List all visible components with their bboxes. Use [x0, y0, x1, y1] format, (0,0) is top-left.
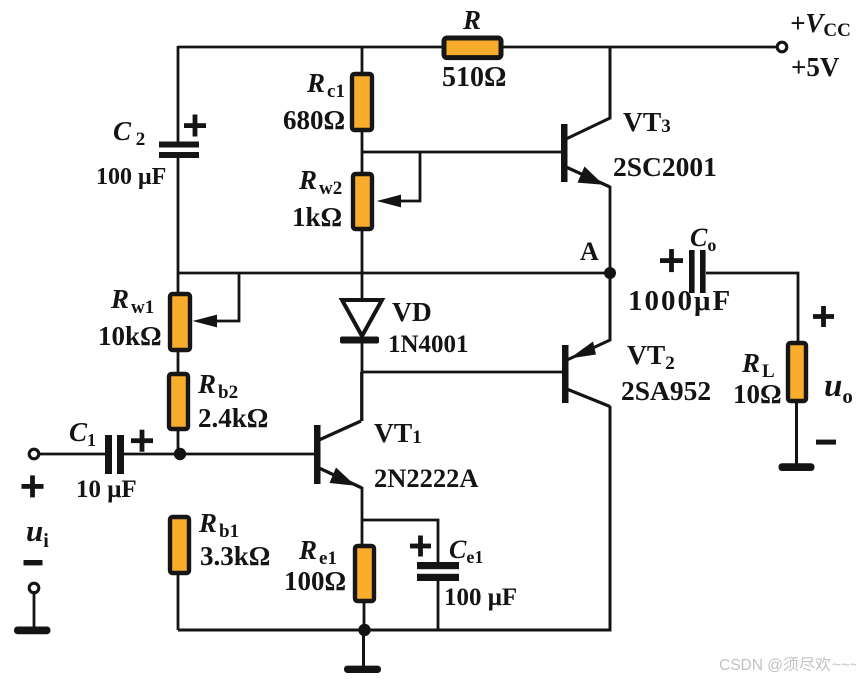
- capacitor C2: [96, 115, 206, 191]
- svg-text:10kΩ: 10kΩ: [98, 321, 162, 351]
- transistor VT3: [561, 47, 717, 187]
- wire to VT2 base: [362, 371, 562, 374]
- wire RL to ground: [795, 401, 798, 464]
- svg-text:2SC2001: 2SC2001: [613, 151, 717, 182]
- wire left rail mid: [177, 157, 180, 293]
- wire Co to RL: [706, 273, 798, 343]
- svg-text:uo: uo: [824, 368, 853, 408]
- wire Re1 to bottom rail: [363, 601, 366, 630]
- potentiometer Rw1: [98, 273, 239, 351]
- wire diode to VT1 collector: [361, 343, 364, 421]
- node A: [580, 237, 616, 279]
- capacitor C1: [69, 417, 153, 503]
- svg-text:ui: ui: [26, 513, 49, 552]
- transistor VT1: [314, 417, 479, 493]
- wire emitter to Ce1: [362, 520, 438, 563]
- svg-text:1N4001: 1N4001: [388, 331, 469, 358]
- ground input: [14, 591, 51, 634]
- svg-text:2N2222A: 2N2222A: [374, 463, 479, 493]
- svg-text:Co: Co: [690, 223, 716, 255]
- svg-text:C1: C1: [69, 417, 96, 450]
- svg-text:VT3: VT3: [623, 106, 671, 137]
- wire Rc1 to Rw2: [361, 130, 364, 174]
- resistor Re1: [284, 535, 374, 601]
- wire VT2 collector to bottom rail: [608, 406, 610, 630]
- output port uo: [813, 306, 853, 445]
- svg-text:+VCC: +VCC: [790, 8, 851, 41]
- svg-text:CSDN @: CSDN @: [719, 657, 783, 674]
- wire Rc1/Rw2 node to VT3 base: [362, 151, 562, 154]
- wire Rb2 to node C: [177, 429, 180, 454]
- diode VD: [340, 296, 469, 358]
- svg-text:Rb1: Rb1: [198, 508, 239, 542]
- capacitor Co: [628, 223, 732, 317]
- svg-text:A: A: [580, 237, 599, 266]
- svg-text:~~~: ~~~: [832, 657, 856, 674]
- wire VT1 emitter to Re1: [361, 487, 364, 546]
- wire left rail upper: [177, 46, 180, 142]
- resistor R: [442, 5, 506, 93]
- svg-text:3.3kΩ: 3.3kΩ: [200, 541, 270, 571]
- capacitor Ce1: [410, 535, 517, 611]
- svg-text:VT1: VT1: [374, 417, 422, 448]
- svg-text:VT2: VT2: [627, 339, 675, 374]
- wire Rw2 to diode: [361, 229, 364, 301]
- ground main: [344, 630, 381, 673]
- transistor VT2: [562, 273, 711, 407]
- input port ui: [22, 475, 50, 592]
- svg-text:Rb2: Rb2: [197, 369, 238, 403]
- svg-text:510Ω: 510Ω: [442, 62, 506, 93]
- svg-text:Rw2: Rw2: [298, 165, 342, 199]
- terminal input: [29, 449, 39, 459]
- svg-text:100 μF: 100 μF: [96, 164, 166, 190]
- wire input to C1: [38, 453, 106, 456]
- svg-text:100Ω: 100Ω: [284, 566, 346, 596]
- resistor Rb1: [170, 508, 270, 573]
- svg-text:Re1: Re1: [298, 535, 337, 569]
- wire mid rail: [178, 272, 610, 275]
- svg-text:C 2: C 2: [113, 116, 145, 150]
- potentiometer Rw2: [292, 152, 420, 232]
- terminal +Vcc: [777, 8, 851, 82]
- svg-text:10 μF: 10 μF: [76, 476, 137, 503]
- svg-text:10Ω: 10Ω: [733, 379, 782, 409]
- resistor Rc1: [283, 46, 372, 135]
- svg-text:+5V: +5V: [791, 52, 840, 82]
- wire Rw1 to Rb2: [177, 350, 180, 374]
- wire top rail: [178, 46, 781, 49]
- wire C1 to VT1 base: [123, 453, 314, 456]
- wire Ce1 to bottom rail: [437, 580, 440, 630]
- wire bottom rail: [178, 629, 611, 632]
- resistor Rb2: [169, 369, 268, 433]
- wire VT1 collector up: [360, 372, 363, 421]
- svg-text:1000μF: 1000μF: [628, 285, 732, 317]
- svg-text:2.4kΩ: 2.4kΩ: [198, 403, 268, 433]
- svg-text:100 μF: 100 μF: [444, 584, 517, 611]
- svg-text:R: R: [462, 5, 481, 35]
- svg-text:VD: VD: [392, 296, 432, 327]
- svg-text:Ce1: Ce1: [449, 535, 483, 567]
- ground output: [779, 463, 815, 471]
- junction bottom: [358, 624, 370, 636]
- svg-text:680Ω: 680Ω: [283, 105, 345, 135]
- resistor RL: [733, 343, 806, 409]
- svg-text:Rc1: Rc1: [306, 68, 345, 102]
- wire VT3 emitter to node A: [609, 186, 612, 273]
- svg-text:1kΩ: 1kΩ: [292, 202, 342, 232]
- svg-text:2SA952: 2SA952: [621, 375, 711, 406]
- svg-text:RL: RL: [741, 348, 775, 382]
- svg-text:Rw1: Rw1: [110, 284, 154, 318]
- wire Rb1 to bottom rail: [177, 573, 180, 630]
- junction at C1 output node: [174, 448, 186, 460]
- watermark: [719, 657, 856, 674]
